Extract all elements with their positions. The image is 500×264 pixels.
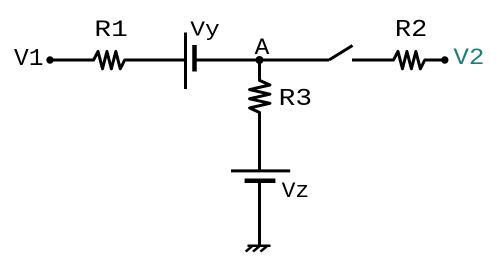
svg-text:Vy: Vy — [190, 19, 220, 42]
svg-text:Vz: Vz — [282, 179, 310, 204]
svg-text:R1: R1 — [94, 17, 127, 43]
svg-text:R2: R2 — [395, 17, 427, 44]
svg-text:R3: R3 — [279, 86, 312, 113]
svg-text:A: A — [255, 35, 270, 61]
svg-text:V2: V2 — [453, 45, 484, 71]
svg-text:V1: V1 — [14, 46, 44, 73]
